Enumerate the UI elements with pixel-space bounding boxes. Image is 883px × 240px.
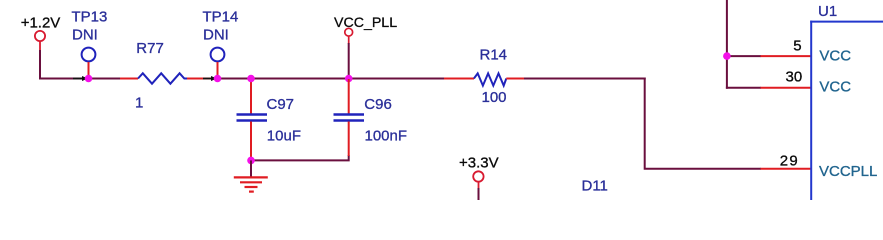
pin 30 lead bbox=[761, 87, 812, 89]
svg-text:TP14: TP14 bbox=[203, 8, 239, 25]
IC U1 body outline bbox=[810, 21, 883, 200]
svg-text:VCC: VCC bbox=[819, 47, 851, 64]
svg-text:100nF: 100nF bbox=[365, 128, 408, 145]
svg-text:VCCPLL: VCCPLL bbox=[819, 163, 877, 180]
capacitor C97 bbox=[237, 79, 268, 160]
wire main horizontal bus segment 1 bbox=[39, 78, 121, 80]
junction at pin5 branch bbox=[723, 52, 731, 60]
capacitor C96 bbox=[334, 79, 365, 156]
power symbol +3.3V bbox=[473, 171, 483, 189]
power symbol VCC_PLL bbox=[345, 28, 353, 44]
pin 29 lead bbox=[761, 168, 812, 170]
svg-text:DNI: DNI bbox=[72, 26, 98, 43]
svg-text:VCC_PLL: VCC_PLL bbox=[334, 15, 397, 31]
resistor R77 bbox=[120, 73, 214, 83]
svg-text:C97: C97 bbox=[267, 96, 295, 113]
DNI arrow marker at TP13 bbox=[73, 76, 88, 81]
wire to pin 30 bbox=[726, 87, 761, 89]
wire main horizontal bus segment 3 bbox=[523, 78, 646, 80]
junction at TP14 bbox=[214, 75, 222, 83]
wire to pin 29 (down and right) bbox=[645, 78, 761, 169]
wire VCC feed vertical from top bbox=[726, 0, 728, 89]
svg-text:+3.3V: +3.3V bbox=[459, 154, 499, 171]
wire cap bottoms horizontal bbox=[251, 155, 349, 160]
test point TP14 bbox=[211, 48, 225, 76]
wire VCC_PLL vertical bbox=[348, 43, 350, 79]
svg-text:R77: R77 bbox=[136, 40, 164, 57]
DNI arrow marker at TP14 bbox=[203, 76, 217, 81]
pin 5 lead bbox=[761, 55, 812, 57]
wire main horizontal bus segment 2 bbox=[215, 78, 445, 80]
svg-text:1: 1 bbox=[135, 95, 143, 112]
wire +3.3V down to edge bbox=[478, 188, 480, 200]
power symbol +1.2V bbox=[35, 31, 45, 51]
junction at C97 bottom bbox=[247, 157, 255, 165]
junction at C97 top bbox=[247, 75, 255, 83]
svg-text:10uF: 10uF bbox=[267, 128, 301, 145]
junction at TP13 bbox=[85, 75, 93, 83]
svg-text:30: 30 bbox=[786, 68, 803, 85]
svg-text:100: 100 bbox=[482, 89, 507, 106]
svg-text:C96: C96 bbox=[364, 96, 392, 113]
svg-text:29: 29 bbox=[780, 153, 799, 170]
junction at VCC_PLL bbox=[345, 75, 353, 83]
wire to pin 5 bbox=[727, 55, 761, 57]
svg-text:TP13: TP13 bbox=[72, 8, 108, 25]
svg-text:DNI: DNI bbox=[203, 26, 229, 43]
wire +1.2V vertical bbox=[39, 50, 41, 80]
svg-text:U1: U1 bbox=[818, 3, 837, 20]
svg-text:D11: D11 bbox=[582, 178, 608, 195]
svg-text:+1.2V: +1.2V bbox=[21, 15, 61, 32]
svg-text:VCC: VCC bbox=[819, 79, 851, 96]
svg-text:5: 5 bbox=[793, 37, 801, 54]
test point TP13 bbox=[82, 48, 96, 76]
resistor R14 bbox=[444, 73, 524, 85]
ground symbol bbox=[234, 160, 268, 191]
svg-text:R14: R14 bbox=[480, 47, 508, 64]
